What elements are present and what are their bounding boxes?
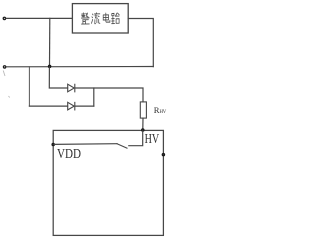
wire: branch A from node A down to diode D1 xyxy=(49,68,67,88)
char 整 xyxy=(81,13,89,24)
wire: vertical branch from top wire down to node A xyxy=(49,18,51,65)
scan smudge xyxy=(3,71,10,98)
svg-text:HV: HV xyxy=(145,131,160,146)
char 路 xyxy=(112,13,120,24)
wire: resistor bottom to HV node xyxy=(142,118,144,129)
node HV pin dot xyxy=(142,129,144,131)
diode D2 xyxy=(68,102,75,110)
terminal T2 xyxy=(3,66,5,68)
char 电 xyxy=(103,13,110,22)
label 整流电路 (drawn strokes) xyxy=(81,13,119,24)
node right edge pin dot xyxy=(162,154,164,156)
wire: D2 cathode joining vertical xyxy=(75,105,93,107)
switch blade SW1 xyxy=(117,144,127,149)
resistor RHV body xyxy=(140,102,146,118)
node A junction dot xyxy=(49,65,51,67)
rectifier box U1 xyxy=(72,4,128,33)
wire: D1 cathode to resistor corner xyxy=(75,88,143,102)
wire: switch feed from VDD node xyxy=(54,143,117,146)
wire: rectifier box right to corner xyxy=(128,19,153,67)
wire: switch fixed contact to HV node xyxy=(129,131,143,146)
wire: branch B down from bottom AC wire xyxy=(28,67,30,107)
diode D1 xyxy=(68,84,75,92)
wire: bottom AC wire T2 to right corner xyxy=(6,66,153,68)
svg-text:RHV: RHV xyxy=(154,105,167,115)
svg-text:VDD: VDD xyxy=(57,146,81,161)
node VDD pin dot xyxy=(52,143,54,145)
wire: vertical joining D1 and D2 outputs xyxy=(93,88,95,106)
wire: T1 to rectifier box xyxy=(6,17,72,19)
terminal T1 xyxy=(3,17,5,19)
chip box U2 xyxy=(53,130,163,235)
char 流 xyxy=(92,13,100,24)
